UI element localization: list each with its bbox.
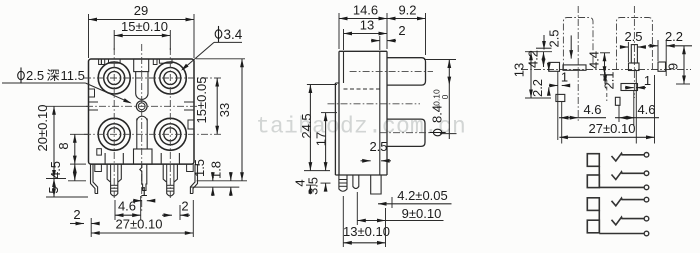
- dimension 17 (side left vertical): [314, 113, 338, 171]
- dimension 1.8 (right): [190, 161, 239, 196]
- svg-text:4.2±0.05: 4.2±0.05: [397, 188, 448, 203]
- side view bottom barrel: [328, 104, 433, 147]
- svg-text:1: 1: [140, 184, 147, 199]
- svg-text:4.6: 4.6: [637, 102, 655, 117]
- svg-text:14.6: 14.6: [353, 3, 378, 18]
- dimension 3.5 (side left): [306, 177, 331, 195]
- center column details: [89, 59, 195, 164]
- pcb pad F: [621, 84, 638, 91]
- pcb dimension 4.4 (vertical): [587, 51, 613, 75]
- dimension 9.2 (side top): [387, 3, 426, 56]
- dimension φ8.4 with tolerance (side): [424, 60, 457, 140]
- dimension 1 (bottom middle): [133, 184, 155, 203]
- dimension 33 (right, total height): [196, 59, 245, 181]
- svg-text:3.4: 3.4: [224, 27, 243, 42]
- svg-text:8: 8: [56, 142, 71, 149]
- dimension 15±0.05 (right, vertical jack spacing): [194, 77, 219, 135]
- label φ3.4 with leader: [181, 26, 243, 71]
- front view jack pin at x=114.2: [105, 153, 123, 196]
- svg-text:24.5: 24.5: [299, 113, 314, 138]
- dimension 8 (left, vertical): [56, 134, 88, 164]
- svg-text:3.5: 3.5: [306, 177, 321, 195]
- svg-text:2.5: 2.5: [26, 68, 44, 83]
- svg-text:2.5: 2.5: [547, 29, 562, 47]
- svg-text:13: 13: [360, 18, 374, 33]
- side view body outline: [335, 51, 387, 175]
- dimension 4 (side left): [293, 179, 317, 193]
- dimension 24.5 (side left vertical): [299, 85, 337, 171]
- svg-text:0: 0: [440, 94, 450, 99]
- side view top barrel: [350, 58, 433, 85]
- front view middle thin pin: [140, 164, 147, 190]
- pcb view barrel axes: [578, 6, 634, 122]
- svg-text:1: 1: [561, 70, 568, 85]
- svg-text:20±0.10: 20±0.10: [35, 105, 50, 152]
- front view body notches and tabs: [89, 59, 195, 155]
- dimension 4.5 (left, vertical): [48, 161, 86, 181]
- schematic group 2: [587, 197, 649, 236]
- svg-text:-0.10: -0.10: [432, 89, 442, 109]
- svg-text:13±0.10: 13±0.10: [343, 224, 390, 239]
- svg-text:29: 29: [134, 3, 148, 18]
- dimension 1.5 (right): [192, 159, 247, 181]
- svg-text:1.5: 1.5: [192, 159, 207, 177]
- pcb dimension 27±0.10: [559, 121, 654, 139]
- pcb view ghost barrel left: [563, 18, 593, 70]
- svg-text:4.2: 4.2: [526, 50, 541, 68]
- schematic group 1: [587, 153, 649, 190]
- pcb pad C with pin lines: [629, 45, 640, 71]
- pcb dimension 4.2 (vertical): [526, 50, 546, 68]
- pcb dimension 4.6 right: [615, 102, 659, 122]
- dimension 5 (left, vertical): [46, 179, 88, 198]
- svg-text:17: 17: [314, 132, 329, 146]
- svg-text:4.6: 4.6: [583, 102, 601, 117]
- svg-text:15±0.10: 15±0.10: [121, 19, 168, 34]
- svg-text:13: 13: [512, 63, 527, 77]
- svg-text:2: 2: [398, 23, 405, 38]
- svg-text:11.5: 11.5: [61, 68, 85, 83]
- dimension 2.5 (side pin width): [361, 139, 392, 163]
- center mounting hole circles: [136, 101, 147, 112]
- pcb pin extension lines: [558, 71, 655, 144]
- dimension 13±0.10 (side bottom): [343, 196, 390, 247]
- pcb dimension 2.5 right: [620, 29, 646, 62]
- label φ2.5深11.5 with leader: [2, 67, 132, 103]
- front view body outline: [89, 59, 195, 164]
- pcb dimension 1 right: [625, 73, 651, 90]
- svg-text:2.2: 2.2: [530, 79, 545, 97]
- front view centerlines: [84, 44, 221, 212]
- svg-text:1.8: 1.8: [208, 161, 223, 179]
- svg-text:2.5: 2.5: [624, 29, 642, 44]
- pcb view ghost barrel right: [617, 18, 653, 70]
- pcb dimension 4.6 left: [559, 102, 606, 120]
- RCA jack top-left: concentric circles: [98, 62, 130, 94]
- RCA jack bottom-right: concentric circles: [154, 118, 186, 150]
- svg-text:9±0.10: 9±0.10: [402, 206, 442, 221]
- svg-text:2.2: 2.2: [665, 29, 683, 44]
- svg-text:4.5: 4.5: [48, 161, 63, 179]
- svg-text:9: 9: [666, 63, 681, 70]
- side view pin stub 2: [353, 175, 359, 189]
- pcb pad D: [658, 62, 666, 71]
- pcb dimension 2.5 left (vertical): [542, 29, 573, 58]
- pcb view main centerline: [521, 69, 691, 71]
- front view jack pin at x=170.3: [161, 153, 179, 196]
- dimension 2 (bottom right): [162, 199, 190, 221]
- svg-text:1: 1: [644, 73, 651, 88]
- side view pin stub 1 (ringed): [339, 175, 347, 191]
- pcb pad H reference line: [536, 47, 552, 49]
- svg-text:2.5: 2.5: [369, 139, 387, 154]
- dimension 4.6 (bottom): [115, 196, 141, 220]
- dimension 2 (side top): [371, 23, 406, 50]
- dimension 29 (top width): [89, 3, 195, 58]
- dimension 14.6 (side top): [339, 3, 387, 50]
- svg-text:27±0.10: 27±0.10: [116, 217, 163, 232]
- svg-text:2: 2: [73, 207, 80, 222]
- pcb dimension 1 left: [549, 70, 570, 88]
- dimension 9±0.10 (side bottom): [357, 192, 443, 225]
- side view long flat pin: [371, 175, 381, 194]
- front view right mounting bracket: [187, 164, 198, 193]
- RCA jack top-right: concentric circles: [154, 62, 186, 94]
- pcb dimension 2.2 left (vertical): [530, 63, 551, 97]
- pcb dimension 2.2 right: [648, 29, 692, 76]
- pcb dimension 2.1 (vertical): [602, 71, 617, 101]
- pcb pad G: [615, 97, 620, 105]
- svg-text:15±0.05: 15±0.05: [194, 77, 209, 124]
- dimension 20±0.10 (left, vertical): [35, 105, 88, 179]
- dimension 2 (bottom left): [70, 207, 100, 225]
- svg-text:4.4: 4.4: [587, 51, 602, 69]
- dimension 13 (side top): [344, 18, 388, 51]
- svg-text:27±0.10: 27±0.10: [589, 121, 636, 136]
- svg-text:33: 33: [217, 103, 232, 117]
- svg-text:2: 2: [181, 199, 188, 214]
- svg-text:9.2: 9.2: [398, 3, 416, 18]
- front view left mounting bracket: [91, 164, 102, 193]
- dimension 4.2±0.05 (side bottom): [378, 188, 452, 208]
- pcb pad A: [549, 62, 560, 71]
- RCA jack bottom-left: concentric circles: [98, 118, 130, 150]
- pcb dimension 9 (vertical): [666, 46, 691, 84]
- pcb pad E: [556, 94, 565, 101]
- pcb dimension 13 (vertical): [512, 52, 553, 98]
- pcb pad B: [563, 65, 586, 70]
- dimension 27±0.10 (bottom width): [91, 200, 193, 237]
- dimension 15±0.10 (jack spacing horizontal): [114, 19, 170, 50]
